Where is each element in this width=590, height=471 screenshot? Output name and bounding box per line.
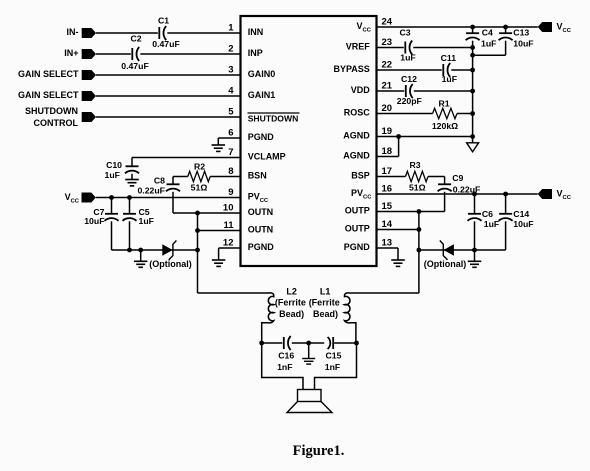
- svg-text:BYPASS: BYPASS: [333, 64, 369, 74]
- svg-text:OUTP: OUTP: [345, 206, 370, 216]
- svg-text:C13: C13: [513, 28, 529, 38]
- svg-text:CONTROL: CONTROL: [34, 118, 79, 128]
- svg-text:PGND: PGND: [248, 242, 275, 252]
- svg-text:C1: C1: [158, 16, 169, 26]
- svg-text:1uF: 1uF: [484, 219, 499, 229]
- svg-text:PGND: PGND: [344, 242, 371, 252]
- svg-text:IN-: IN-: [67, 27, 79, 37]
- svg-text:1nF: 1nF: [325, 362, 340, 372]
- svg-text:R1: R1: [438, 99, 449, 109]
- svg-text:1: 1: [228, 23, 234, 34]
- svg-text:OUTN: OUTN: [248, 225, 274, 235]
- svg-text:18: 18: [382, 146, 393, 157]
- svg-text:ROSC: ROSC: [344, 108, 371, 118]
- svg-text:GAIN SELECT: GAIN SELECT: [18, 90, 79, 100]
- svg-text:Bead): Bead): [279, 309, 304, 319]
- svg-text:(Ferrite: (Ferrite: [275, 297, 306, 307]
- svg-text:VDD: VDD: [351, 85, 371, 95]
- svg-text:(Optional): (Optional): [149, 259, 192, 269]
- svg-text:R2: R2: [194, 162, 205, 172]
- svg-text:23: 23: [382, 37, 393, 48]
- svg-text:INN: INN: [248, 27, 264, 37]
- svg-text:22: 22: [382, 60, 393, 71]
- svg-text:OUTN: OUTN: [248, 207, 274, 217]
- svg-text:12: 12: [223, 238, 234, 249]
- svg-text:VREF: VREF: [346, 42, 371, 52]
- svg-text:AGND: AGND: [343, 131, 370, 141]
- svg-text:15: 15: [382, 201, 393, 212]
- svg-text:13: 13: [382, 238, 393, 249]
- svg-text:1uF: 1uF: [481, 39, 496, 49]
- svg-text:C3: C3: [399, 28, 410, 38]
- svg-text:21: 21: [382, 81, 393, 92]
- svg-text:INP: INP: [248, 48, 263, 58]
- svg-text:19: 19: [382, 126, 393, 137]
- svg-text:11: 11: [223, 220, 234, 231]
- svg-text:24: 24: [382, 17, 393, 28]
- svg-text:VCLAMP: VCLAMP: [248, 152, 286, 162]
- svg-text:C11: C11: [441, 53, 457, 63]
- svg-text:20: 20: [382, 103, 393, 114]
- svg-text:IN+: IN+: [64, 48, 78, 58]
- svg-text:0.22uF: 0.22uF: [137, 185, 165, 195]
- svg-text:C12: C12: [401, 74, 417, 84]
- svg-text:PGND: PGND: [248, 132, 275, 142]
- svg-text:Figure1.: Figure1.: [293, 443, 345, 459]
- svg-text:1uF: 1uF: [105, 170, 120, 180]
- svg-text:C16: C16: [278, 350, 294, 360]
- svg-text:0.47uF: 0.47uF: [121, 61, 149, 71]
- svg-text:C4: C4: [482, 28, 493, 38]
- svg-text:(Optional): (Optional): [424, 259, 467, 269]
- svg-text:7: 7: [228, 147, 233, 158]
- svg-text:C15: C15: [326, 350, 342, 360]
- svg-text:L1: L1: [320, 287, 331, 297]
- svg-text:C2: C2: [130, 34, 141, 44]
- svg-text:10: 10: [223, 203, 234, 214]
- svg-text:6: 6: [228, 128, 233, 139]
- svg-text:10uF: 10uF: [513, 219, 533, 229]
- svg-text:C6: C6: [482, 209, 493, 219]
- svg-text:SHUTDOWN: SHUTDOWN: [248, 113, 299, 123]
- svg-text:0.47uF: 0.47uF: [152, 39, 180, 49]
- svg-text:AGND: AGND: [343, 151, 370, 161]
- svg-text:GAIN SELECT: GAIN SELECT: [18, 69, 79, 79]
- svg-text:C14: C14: [513, 209, 529, 219]
- svg-text:GAIN0: GAIN0: [248, 69, 276, 79]
- svg-text:9: 9: [228, 187, 233, 198]
- svg-text:L2: L2: [286, 287, 297, 297]
- svg-text:BSP: BSP: [351, 171, 370, 181]
- svg-text:120kΩ: 120kΩ: [432, 121, 458, 131]
- svg-text:GAIN1: GAIN1: [248, 90, 276, 100]
- svg-text:BSN: BSN: [248, 171, 267, 181]
- svg-text:(Ferrite: (Ferrite: [309, 297, 340, 307]
- svg-text:C8: C8: [154, 175, 165, 185]
- svg-text:1uF: 1uF: [139, 216, 154, 226]
- svg-text:10uF: 10uF: [84, 216, 104, 226]
- svg-text:1nF: 1nF: [277, 362, 292, 372]
- svg-text:C10: C10: [106, 160, 122, 170]
- svg-text:8: 8: [228, 166, 233, 177]
- svg-text:OUTP: OUTP: [345, 224, 370, 234]
- svg-text:10uF: 10uF: [513, 39, 533, 49]
- svg-text:C9: C9: [452, 173, 463, 183]
- svg-text:4: 4: [228, 86, 234, 97]
- svg-text:5: 5: [228, 107, 234, 118]
- svg-text:14: 14: [382, 219, 393, 230]
- svg-text:SHUTDOWN: SHUTDOWN: [25, 106, 78, 116]
- svg-text:Bead): Bead): [313, 309, 338, 319]
- svg-text:3: 3: [228, 65, 233, 76]
- svg-text:220pF: 220pF: [397, 96, 422, 106]
- svg-text:R3: R3: [409, 160, 420, 170]
- svg-text:51Ω: 51Ω: [191, 182, 208, 192]
- svg-text:17: 17: [382, 166, 393, 177]
- svg-text:2: 2: [228, 44, 233, 55]
- svg-text:51Ω: 51Ω: [409, 182, 426, 192]
- svg-text:1uF: 1uF: [400, 52, 415, 62]
- svg-text:1uF: 1uF: [442, 74, 457, 84]
- svg-text:16: 16: [382, 184, 393, 195]
